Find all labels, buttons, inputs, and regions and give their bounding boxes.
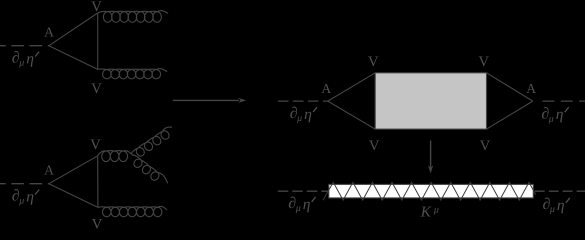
svg-text:V: V xyxy=(91,0,102,15)
gluon from V bottom (D1) xyxy=(98,69,167,79)
svg-text:V: V xyxy=(479,54,490,70)
svg-text:A: A xyxy=(321,81,331,96)
shaded blob box xyxy=(375,73,486,129)
svg-text:A: A xyxy=(44,163,54,178)
eta' dashed propagator (D2) xyxy=(0,183,49,185)
svg-text:V: V xyxy=(368,54,379,70)
triangle side A-Vbottom (D2) xyxy=(49,184,98,208)
svg-text:V: V xyxy=(90,137,101,153)
gluon from V top (D1) xyxy=(98,11,168,23)
label d_mu eta' right (D3) xyxy=(541,105,568,124)
line box bottom-right to right vertex xyxy=(487,101,533,129)
triangle side Vtop-Vbottom (D1) xyxy=(97,13,99,69)
hatched bar body xyxy=(329,184,534,198)
label d_mu eta' left (D3) xyxy=(290,105,317,124)
svg-text:K: K xyxy=(420,204,432,220)
svg-text:A: A xyxy=(44,25,54,40)
gluon branch up-right (D2) xyxy=(131,127,172,156)
gluon branch down-right (D2) xyxy=(133,155,168,183)
svg-text:A: A xyxy=(526,81,536,96)
eta' dashed propagator left (D3) xyxy=(278,100,328,102)
gluon from V top to 3-gluon vertex (D2) xyxy=(98,151,133,162)
triangle side A-Vtop (D2) xyxy=(49,156,98,184)
triangle side A-Vbottom (D1) xyxy=(49,46,98,70)
eta' dashed propagator left (D4) xyxy=(278,190,329,192)
svg-text:μ: μ xyxy=(433,204,439,215)
eta' dashed propagator (D1) xyxy=(0,45,49,47)
label d_mu eta' right (D4) xyxy=(543,196,570,215)
arrow from left group to right group xyxy=(173,99,239,101)
svg-text:V: V xyxy=(480,138,491,154)
triangle side A-Vtop (D1) xyxy=(49,13,98,46)
line vertex to box bottom-left xyxy=(328,101,375,129)
label d_mu eta' left (D4) xyxy=(288,195,315,214)
label d_mu eta' (D2) xyxy=(12,188,39,207)
line box top-right to right vertex xyxy=(487,73,533,101)
svg-text:V: V xyxy=(91,81,102,97)
triangle side Vtop-Vbottom (D2) xyxy=(97,156,99,208)
gluon from V bottom (D2) xyxy=(98,206,167,216)
eta' dashed propagator right (D3) xyxy=(543,100,585,102)
downward arrow xyxy=(430,140,432,167)
label d_mu eta' (D1) xyxy=(12,50,39,69)
svg-text:V: V xyxy=(369,138,380,154)
eta' dashed propagator right (D4) xyxy=(535,190,585,192)
zigzag hatching xyxy=(323,182,536,200)
svg-text:V: V xyxy=(92,217,103,232)
line vertex to box top-left xyxy=(328,73,375,101)
